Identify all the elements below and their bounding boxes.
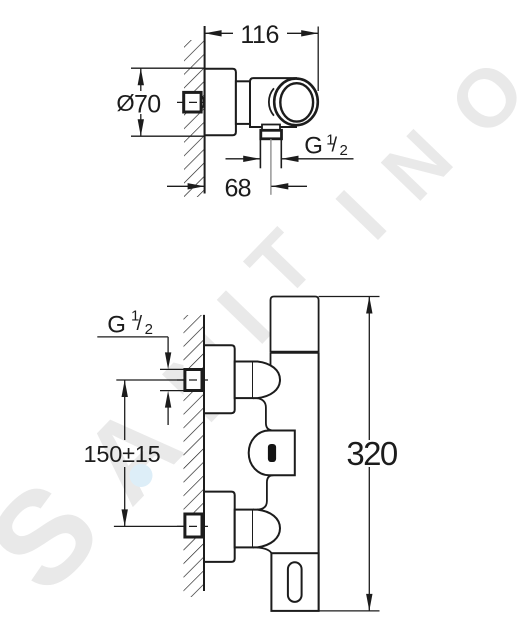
svg-text:O: O (433, 44, 525, 153)
svg-text:2: 2 (340, 142, 348, 159)
svg-text:/: / (332, 134, 338, 156)
svg-text:/: / (137, 313, 143, 335)
svg-text:150±15: 150±15 (83, 441, 160, 467)
svg-text:G: G (107, 312, 126, 339)
svg-text:68: 68 (224, 174, 250, 202)
svg-text:320: 320 (346, 435, 398, 472)
svg-text:Ø70: Ø70 (116, 90, 160, 118)
svg-text:I: I (319, 173, 405, 257)
svg-text:N: N (365, 113, 469, 216)
svg-text:2: 2 (145, 321, 153, 338)
svg-text:116: 116 (240, 21, 279, 49)
svg-text:G: G (304, 133, 323, 160)
